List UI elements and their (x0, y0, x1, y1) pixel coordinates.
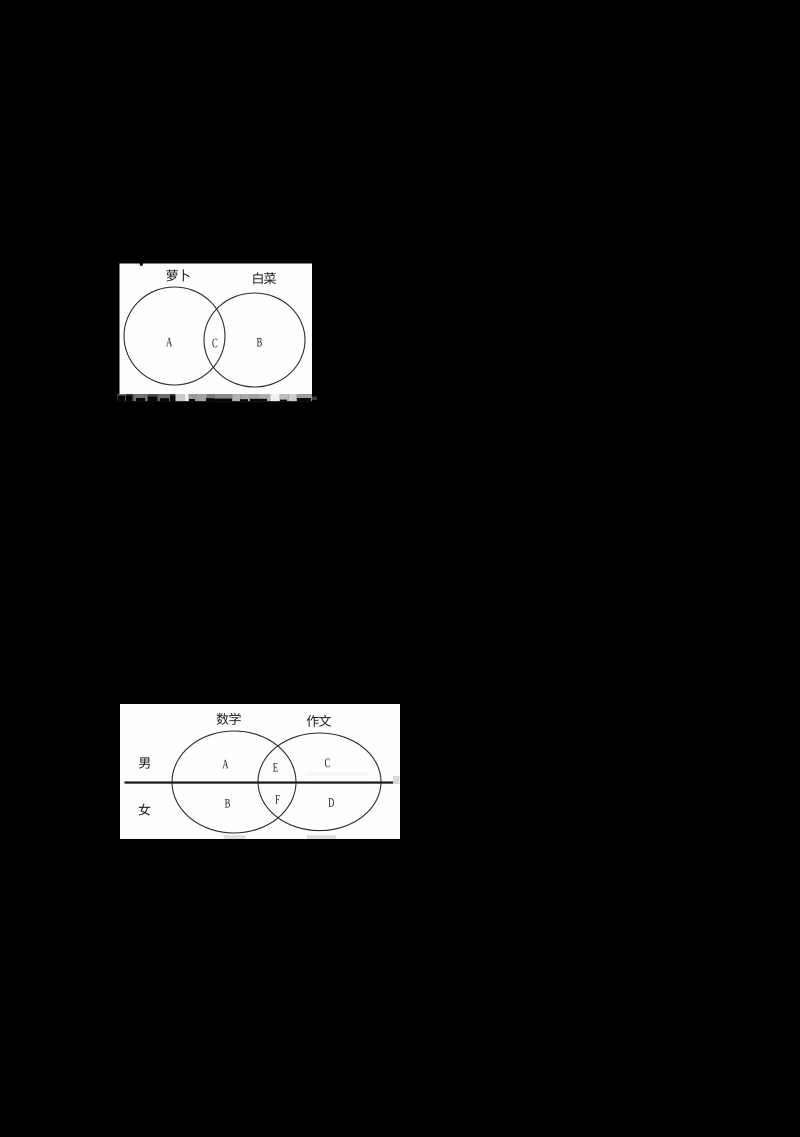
ellipse Math (left) (172, 731, 296, 833)
label shu (数) (217, 713, 229, 725)
region letter A (fig2) (222, 760, 228, 769)
ellipse Composition (right) (258, 733, 381, 831)
gray artifact under left ellipse bottom (224, 835, 246, 839)
label nv (女) (139, 804, 151, 816)
region letter E (273, 763, 278, 772)
label zuo (作) (307, 715, 319, 727)
region letter C (212, 339, 217, 348)
region letter A (166, 338, 172, 347)
label cai (菜) (264, 272, 276, 284)
label nan (男) (139, 757, 150, 768)
region letter D (328, 798, 334, 807)
strip tail speck right of figure 1 (312, 397, 317, 401)
faint smudge above divider right side (306, 772, 369, 776)
label bo (卜) (183, 269, 190, 281)
label luo (萝) (166, 269, 177, 281)
cut-off glyph-top fragments (118, 396, 311, 402)
label bai (白) (253, 272, 262, 284)
cut-off text line strip (gray blocks) (118, 394, 312, 401)
notch artifact on top edge of figure 1 (140, 264, 143, 266)
region letter C (fig2) (325, 758, 330, 767)
horizontal divider line (125, 781, 394, 783)
gray artifact under right ellipse bottom (307, 835, 336, 839)
region letter F (275, 795, 279, 804)
label xue (学) (229, 713, 240, 725)
circle B (right, 白菜) (204, 293, 305, 387)
region letter B (257, 338, 262, 347)
gray block at right end of divider (393, 776, 400, 784)
figure 1 white panel (120, 264, 313, 395)
figure 2 white panel (120, 704, 400, 839)
circle A (left, 萝卜) (124, 287, 225, 385)
region letter B (fig2) (225, 799, 230, 808)
label wen (文) (319, 715, 331, 727)
